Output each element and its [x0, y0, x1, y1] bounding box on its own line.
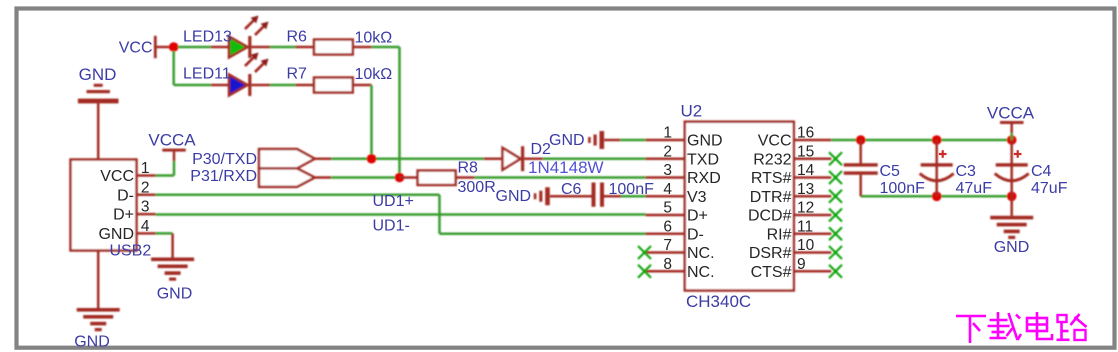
svg-text:P31/RXD: P31/RXD [190, 168, 257, 185]
svg-text:RI#: RI# [767, 226, 792, 243]
svg-text:U2: U2 [681, 102, 703, 121]
svg-text:GND: GND [98, 226, 134, 243]
svg-text:UD1-: UD1- [373, 217, 410, 234]
svg-text:2: 2 [663, 143, 672, 160]
svg-text:4: 4 [663, 181, 672, 198]
svg-text:4: 4 [141, 218, 150, 235]
svg-text:D2: D2 [531, 141, 552, 158]
svg-text:14: 14 [797, 162, 815, 179]
svg-text:D-: D- [687, 226, 704, 243]
svg-text:GND: GND [549, 132, 585, 149]
svg-text:2: 2 [141, 179, 150, 196]
svg-text:R7: R7 [287, 66, 308, 83]
svg-text:C3: C3 [956, 163, 977, 180]
svg-text:47uF: 47uF [1031, 180, 1068, 197]
svg-text:VCC: VCC [119, 40, 153, 57]
svg-text:16: 16 [797, 125, 814, 142]
svg-text:10: 10 [797, 237, 815, 254]
svg-text:D-: D- [117, 187, 134, 204]
svg-text:C6: C6 [561, 181, 582, 198]
svg-text:3: 3 [141, 199, 150, 216]
svg-text:GND: GND [994, 239, 1030, 256]
svg-text:6: 6 [663, 218, 672, 235]
svg-text:DSR#: DSR# [749, 245, 792, 262]
svg-text:RXD: RXD [687, 170, 721, 187]
svg-text:3: 3 [663, 162, 672, 179]
svg-text:NC.: NC. [687, 264, 715, 281]
svg-text:10kΩ: 10kΩ [355, 66, 393, 83]
svg-text:GND: GND [157, 286, 193, 303]
svg-text:RTS#: RTS# [751, 170, 792, 187]
svg-text:GND: GND [687, 133, 723, 150]
svg-text:VCC: VCC [758, 133, 792, 150]
svg-text:GND: GND [74, 334, 110, 351]
svg-text:100nF: 100nF [609, 181, 655, 198]
svg-text:47uF: 47uF [956, 180, 993, 197]
svg-text:CTS#: CTS# [751, 264, 792, 281]
svg-text:DCD#: DCD# [748, 208, 792, 225]
svg-text:300R: 300R [458, 179, 496, 196]
svg-text:9: 9 [797, 256, 806, 273]
svg-text:UD1+: UD1+ [373, 193, 414, 210]
svg-text:1: 1 [141, 160, 150, 177]
svg-text:USB2: USB2 [110, 243, 152, 260]
svg-text:VCCA: VCCA [987, 104, 1035, 123]
svg-text:NC.: NC. [687, 245, 715, 262]
svg-text:C5: C5 [880, 163, 901, 180]
svg-text:GND: GND [79, 65, 117, 84]
svg-text:8: 8 [663, 256, 672, 273]
svg-text:100nF: 100nF [880, 180, 926, 197]
svg-text:R232: R232 [753, 151, 791, 168]
svg-text:1: 1 [663, 125, 672, 142]
svg-text:P30/TXD: P30/TXD [192, 151, 257, 168]
svg-text:VCCA: VCCA [148, 131, 196, 150]
svg-text:13: 13 [797, 181, 814, 198]
svg-text:1N4148W: 1N4148W [528, 158, 604, 177]
svg-text:C4: C4 [1031, 163, 1052, 180]
svg-text:VCC: VCC [100, 168, 134, 185]
svg-text:LED13: LED13 [183, 29, 232, 46]
svg-text:V3: V3 [687, 189, 707, 206]
svg-text:D+: D+ [687, 208, 708, 225]
svg-text:GND: GND [496, 188, 532, 205]
svg-text:12: 12 [797, 200, 814, 217]
svg-text:10kΩ: 10kΩ [355, 30, 393, 47]
svg-text:15: 15 [797, 143, 814, 160]
svg-text:R6: R6 [287, 28, 308, 45]
svg-text:R8: R8 [458, 160, 479, 177]
svg-text:CH340C: CH340C [686, 292, 751, 311]
svg-text:DTR#: DTR# [750, 189, 792, 206]
svg-text:TXD: TXD [687, 151, 719, 168]
svg-text:D+: D+ [113, 207, 134, 224]
svg-text:7: 7 [663, 237, 672, 254]
svg-text:5: 5 [663, 200, 672, 217]
svg-text:11: 11 [797, 218, 813, 235]
svg-text:LED11: LED11 [183, 66, 231, 83]
